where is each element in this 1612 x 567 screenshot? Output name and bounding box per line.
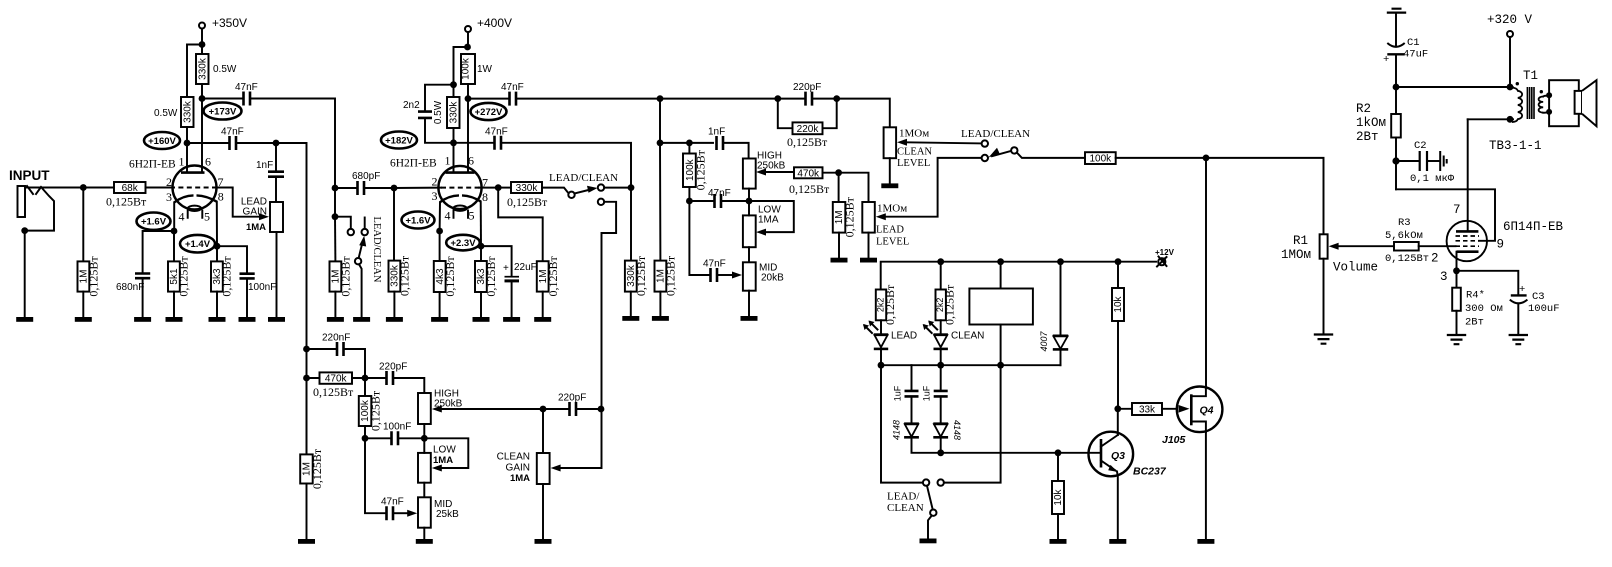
resistor 5k1: [168, 261, 180, 291]
wire primary top: [1510, 86, 1513, 88]
transistor Q3 BC237: [1089, 432, 1134, 477]
ground: [920, 539, 937, 544]
svg-text:100uF: 100uF: [1528, 303, 1560, 315]
svg-text:CLEAN: CLEAN: [897, 147, 932, 158]
wire 3k3 ground: [480, 292, 482, 317]
node cathode2 U2: [478, 243, 485, 250]
resistor 10k upper: [1112, 288, 1124, 321]
ground: [741, 316, 758, 321]
wire 1M ground: [542, 292, 544, 317]
wire branch left: [454, 47, 468, 85]
wire cathode2 down: [216, 246, 218, 261]
wire 330k ground: [393, 292, 395, 317]
switch0 lever: [359, 241, 363, 258]
wire pin3 to C3: [1457, 271, 1519, 294]
svg-text:+272V: +272V: [475, 107, 503, 118]
wire 1M ground: [659, 292, 661, 316]
svg-text:470k: 470k: [325, 374, 348, 385]
capacitor 1nF lead: [717, 136, 724, 150]
switch3 left contact: [923, 479, 929, 485]
svg-text:R1: R1: [1293, 234, 1308, 248]
node cathode1: [171, 228, 178, 235]
svg-text:330k: 330k: [516, 183, 539, 194]
capacitor 1nF: [268, 172, 284, 177]
oval +182V: [381, 132, 417, 149]
wire Q3 emitter down: [1116, 472, 1119, 540]
resistor 330k coupling: [511, 182, 542, 193]
wire LOW stubs: [423, 438, 425, 497]
node plate B1: [199, 95, 206, 102]
wire pin3 to R4: [1456, 271, 1458, 288]
svg-text:+1.4V: +1.4V: [185, 239, 211, 250]
ground: [473, 317, 490, 322]
oval +1.6V (2): [402, 212, 435, 229]
wire 10k ground: [1057, 514, 1059, 539]
svg-text:100k: 100k: [460, 57, 471, 80]
wire to 330k: [498, 187, 511, 189]
wire upper contact to node: [604, 187, 631, 189]
svg-text:1uF: 1uF: [922, 385, 932, 401]
node HIGH/LOW junction: [421, 435, 428, 442]
svg-text:330k: 330k: [197, 57, 208, 80]
svg-text:CLEAN: CLEAN: [497, 452, 530, 463]
wire node to 330k x631: [630, 188, 632, 261]
LED CLEAN arrows: [924, 322, 937, 333]
wire 220nF: [307, 348, 336, 350]
svg-text:0,125Вт: 0,125Вт: [339, 256, 353, 297]
svg-text:220nF: 220nF: [322, 333, 350, 344]
ground: [534, 317, 551, 322]
ground: [1109, 539, 1126, 544]
wire node to LEAD LEVEL: [839, 173, 869, 202]
tube U1 plate bar: [181, 171, 205, 174]
T1 secondary coil: [1539, 97, 1544, 113]
tube U1 circle: [173, 166, 217, 210]
capacitor 1uF lead: [905, 391, 919, 397]
svg-text:7: 7: [1453, 203, 1461, 217]
tube V3 grids: [1456, 235, 1480, 237]
wire 1uF chain clean: [940, 365, 942, 390]
svg-text:0,125Вт: 0,125Вт: [787, 135, 828, 149]
chassis ground sideways: [1440, 151, 1447, 171]
capacitor 2n2: [418, 112, 432, 118]
wire 1M ground: [334, 292, 336, 317]
wire to 220pF: [365, 377, 385, 379]
svg-text:47nF: 47nF: [703, 259, 726, 270]
svg-text:+320 V: +320 V: [1487, 13, 1533, 27]
svg-text:+400V: +400V: [477, 16, 512, 30]
arrow LEAD LEVEL wiper: [876, 213, 886, 220]
resistor 3k3 (2): [475, 261, 487, 292]
wire cathode2 to 100nF: [217, 246, 247, 272]
svg-text:ТВ3-1-1: ТВ3-1-1: [1489, 139, 1542, 153]
wire cathode1 down: [173, 231, 175, 261]
svg-text:C3: C3: [1532, 291, 1545, 303]
svg-text:220pF: 220pF: [793, 82, 821, 93]
svg-text:LEVEL: LEVEL: [876, 237, 909, 248]
rail node 10k: [1115, 258, 1122, 265]
svg-text:+12V: +12V: [1155, 248, 1175, 257]
switch2 upper contact: [982, 140, 988, 146]
svg-text:Q4: Q4: [1200, 405, 1214, 417]
node collector/33k: [1114, 405, 1121, 412]
node R2/C2: [1392, 157, 1399, 164]
tube U2 plate bar: [446, 171, 475, 174]
wire 33k to Q4 gate: [1162, 408, 1177, 410]
capacitor 220pF top: [806, 92, 813, 106]
wire to plate node: [201, 84, 203, 99]
svg-text:0,125Вт: 0,125Вт: [443, 256, 457, 297]
wire R2 to node: [1395, 138, 1397, 162]
svg-text:250kB: 250kB: [757, 161, 786, 172]
svg-text:0,125Вт: 0,125Вт: [313, 385, 354, 399]
wire y143 to 1nF: [660, 142, 713, 144]
svg-text:1MA: 1MA: [433, 455, 453, 466]
wire LED common: [881, 364, 1061, 366]
rail node 4007: [1057, 258, 1064, 265]
svg-text:4007: 4007: [1039, 330, 1049, 351]
wire 220k loop: [778, 99, 837, 129]
ground: [298, 539, 315, 544]
resistor 220k: [793, 122, 823, 134]
svg-text:0,125Вт: 0,125Вт: [310, 448, 324, 489]
wire 2k2 to LED: [940, 320, 942, 334]
svg-text:CLEAN: CLEAN: [887, 502, 924, 514]
resistor 330k (x394): [389, 261, 401, 292]
wire lower contact down: [602, 202, 617, 468]
ground: [652, 316, 669, 321]
wire 2n2 top: [425, 85, 454, 111]
node pin3: [1453, 267, 1460, 274]
svg-text:6: 6: [468, 154, 474, 168]
tube U2 grid dashes: [441, 187, 480, 189]
wire wiper to 220pF gain: [442, 408, 543, 410]
potentiometer CLEAN GAIN 1MA: [537, 453, 550, 484]
svg-text:+2.3V: +2.3V: [450, 238, 476, 249]
resistor R3 5,6kOm: [1394, 242, 1419, 251]
svg-text:100k: 100k: [1089, 154, 1112, 165]
svg-text:0,125Вт: 0,125Вт: [369, 390, 383, 431]
svg-text:1МОм: 1МОм: [877, 203, 907, 215]
svg-text:2: 2: [432, 175, 438, 189]
input jack body: [18, 186, 26, 217]
potentiometer MID 25kB clean: [418, 497, 431, 527]
wire CLEAN LEVEL ground: [889, 158, 891, 183]
wire long y98: [518, 98, 805, 100]
speaker terminals: [1546, 92, 1552, 98]
svg-text:20kB: 20kB: [761, 273, 784, 284]
wire wiper to R3: [1339, 245, 1394, 247]
svg-text:1W: 1W: [477, 64, 493, 75]
wire y143: [187, 142, 228, 144]
resistor 1M clean: [300, 454, 313, 483]
svg-text:47nF: 47nF: [501, 82, 524, 93]
svg-text:5,6kОм: 5,6kОм: [1385, 230, 1423, 242]
switch3 right contact: [938, 479, 944, 485]
wire cathode1 to 680nF: [143, 231, 174, 272]
svg-text:8: 8: [218, 190, 224, 204]
wire 330k ground: [630, 292, 632, 316]
ground: [831, 258, 848, 263]
node 320V: [1507, 84, 1514, 91]
wire 4148 to node: [940, 439, 942, 453]
wire screen pin9: [1396, 189, 1495, 241]
wire LOW loop: [749, 201, 794, 232]
resistor R2 1kOm 2Вт: [1391, 114, 1401, 138]
wire y98 coupling: [468, 98, 508, 100]
tube V3 plate bar: [1456, 230, 1478, 233]
wire to 100nF: [365, 437, 390, 439]
wire 100k clean: [364, 378, 366, 396]
svg-text:6Н2П-ЕВ: 6Н2П-ЕВ: [390, 158, 437, 170]
svg-text:2: 2: [1431, 252, 1439, 266]
tube U2 circle: [438, 166, 481, 209]
capacitor 1uF clean: [934, 391, 948, 397]
LED CLEAN: [934, 333, 948, 336]
terminal +350V: [199, 23, 205, 29]
tube U1 cathode arcs: [174, 195, 217, 202]
svg-text:4: 4: [179, 210, 185, 224]
wire secondary leads: [1543, 96, 1549, 113]
wire 22uF ground: [511, 282, 513, 317]
rail node 2k2 clean: [937, 258, 944, 265]
wire to C2: [1396, 160, 1418, 162]
wire 1M hang jog: [498, 188, 543, 262]
svg-text:220pF: 220pF: [558, 393, 586, 404]
svg-text:22uF: 22uF: [514, 262, 537, 273]
svg-text:680pF: 680pF: [352, 171, 380, 182]
svg-text:6П14П-ЕВ: 6П14П-ЕВ: [1503, 220, 1564, 234]
wire 680pF left: [335, 187, 356, 189]
switch3 pivot: [930, 510, 936, 516]
wire to 33k: [1118, 408, 1132, 410]
svg-text:0,125Вт: 0,125Вт: [634, 255, 648, 296]
svg-text:330k: 330k: [448, 101, 459, 124]
svg-text:Volume: Volume: [1333, 261, 1378, 275]
potentiometer LEAD LEVEL 1MOm: [862, 202, 875, 233]
wire to tube2 grid: [394, 187, 441, 189]
node 10k base: [1055, 449, 1062, 456]
resistor 330k (x631): [625, 261, 637, 292]
wire cathode2 U2: [480, 202, 482, 247]
switch0 contact B: [362, 229, 368, 235]
wire C1 to node: [1395, 56, 1397, 88]
T1 primary coil: [1512, 88, 1522, 122]
svg-text:47uF: 47uF: [1403, 49, 1428, 61]
switch0 pivot: [355, 258, 361, 264]
wire 470k leads: [307, 377, 366, 379]
node C1: [1393, 84, 1400, 91]
svg-text:CLEAN: CLEAN: [951, 331, 984, 342]
node cathode2: [214, 243, 221, 250]
switch1 upper contact: [598, 184, 604, 190]
wire relay top: [1000, 262, 1002, 289]
node pin7 U2: [495, 184, 502, 191]
resistor 470k clean: [320, 372, 353, 383]
speaker driver: [1575, 91, 1582, 114]
svg-text:1uF: 1uF: [892, 385, 902, 401]
wire to HIGH bottom: [723, 200, 750, 202]
wire 4007 top: [1060, 262, 1062, 335]
node x660 y143: [657, 140, 664, 147]
svg-text:9: 9: [1497, 238, 1505, 252]
svg-text:T1: T1: [1523, 69, 1538, 83]
node 100k bottom: [686, 198, 693, 205]
wire to 22uF: [481, 246, 512, 276]
wire base line: [941, 452, 1099, 454]
tube U1 grid dashes: [170, 187, 220, 189]
svg-text:LEAD: LEAD: [891, 331, 917, 342]
svg-text:47nF: 47nF: [485, 127, 508, 138]
resistor R4* 300 Om: [1452, 288, 1461, 311]
ground: [503, 317, 520, 322]
svg-text:0.5W: 0.5W: [433, 100, 444, 124]
ground: [239, 317, 256, 322]
resistor 1M (x660): [655, 261, 667, 292]
svg-text:BC237: BC237: [1133, 466, 1167, 478]
svg-text:1: 1: [445, 154, 451, 168]
node grid A2: [391, 185, 398, 192]
wire cap to arrow: [719, 274, 733, 276]
wire Q4 source down: [1205, 432, 1207, 539]
svg-text:GAIN: GAIN: [506, 463, 530, 474]
resistor 100k 1W: [461, 54, 475, 84]
ground: [327, 317, 344, 322]
capacitor 47nF (1a): [244, 92, 251, 106]
wire 1uF chain lead: [911, 365, 913, 390]
svg-text:10k: 10k: [1053, 488, 1064, 505]
capacitor 47nF lead mid: [715, 194, 722, 208]
wire x335 down: [334, 188, 336, 217]
resistor 10k lower: [1052, 481, 1064, 514]
svg-text:100nF: 100nF: [383, 422, 411, 433]
potentiometer HIGH 250kB clean: [418, 393, 431, 424]
resistor 1M lead: [833, 202, 846, 233]
svg-text:25kB: 25kB: [436, 509, 459, 520]
diode 4148 lead: [904, 422, 919, 425]
svg-text:4: 4: [445, 209, 451, 223]
terminal +400V: [465, 26, 471, 32]
wire 680pF right: [366, 187, 395, 189]
ground: [386, 317, 403, 322]
wire wiper to 470k: [766, 171, 794, 173]
svg-text:R3: R3: [1398, 217, 1411, 229]
wire x335 to 1M: [334, 217, 336, 262]
diode 4007: [1053, 334, 1068, 337]
resistor 4k3: [434, 261, 446, 292]
svg-text:68k: 68k: [122, 183, 139, 194]
wire 100k to plate node: [467, 84, 469, 99]
svg-text:0.5W: 0.5W: [154, 108, 178, 119]
svg-text:J105: J105: [1162, 434, 1186, 446]
svg-text:33k: 33k: [1139, 405, 1156, 416]
potentiometer HIGH 250kB lead: [743, 159, 756, 189]
oval +1.4V: [180, 235, 215, 253]
node Q4 drain tap: [1203, 155, 1210, 162]
node switch drop: [598, 406, 605, 413]
svg-text:5: 5: [204, 210, 210, 224]
svg-text:47nF: 47nF: [235, 82, 258, 93]
svg-text:0,125Вт: 0,125Вт: [220, 256, 234, 297]
wire contactB stub: [364, 218, 366, 229]
wire 10k to collector node: [1117, 321, 1119, 409]
svg-text:330k: 330k: [182, 100, 193, 123]
wire 47nF clean: [365, 438, 385, 513]
wire wiper from switch line: [561, 467, 601, 469]
wire relay bottom: [1000, 325, 1002, 366]
wire to CLEAN LEVEL: [837, 99, 890, 128]
wire 680nF ground: [142, 280, 144, 318]
svg-text:680nF: 680nF: [116, 282, 144, 293]
node lead branch: [878, 362, 885, 369]
wire switch0 branch: [335, 217, 351, 229]
svg-text:0,125Вт: 0,125Вт: [398, 255, 412, 296]
svg-text:8: 8: [482, 190, 488, 204]
capacitor C2 0,1uF: [1420, 151, 1427, 171]
resistor 68k: [114, 182, 146, 193]
ground: [353, 317, 370, 322]
wire 1nF to HIGH: [725, 143, 749, 159]
ground top (inverted): [1387, 9, 1406, 13]
wire to 1nF node: [238, 142, 277, 144]
node 400V: [464, 44, 471, 51]
svg-text:2Вт: 2Вт: [1356, 130, 1379, 144]
ground: [416, 539, 433, 544]
svg-text:1МОм: 1МОм: [1281, 248, 1311, 262]
wire pivot to 100k: [1017, 153, 1085, 158]
wire C3 ground: [1517, 304, 1519, 335]
wire R4 ground: [1456, 311, 1458, 335]
potentiometer MID 20kB lead: [743, 262, 756, 290]
wire LED to node: [880, 350, 882, 365]
capacitor 220pF gain: [570, 402, 577, 416]
svg-text:0,125Вт: 0,125Вт: [1385, 253, 1429, 265]
wire 2k2 clean top: [940, 262, 942, 290]
wire node to R2: [1395, 87, 1397, 114]
wire 1M ground: [838, 233, 840, 258]
wire 10k upper: [1117, 262, 1119, 288]
node 220pF right: [833, 95, 840, 102]
node 220nF left: [303, 346, 310, 353]
arrow MID wiper: [732, 272, 742, 279]
svg-text:0,1 мкФ: 0,1 мкФ: [1410, 173, 1455, 185]
svg-text:1МА: 1МА: [758, 215, 779, 226]
svg-text:0,125Вт: 0,125Вт: [87, 256, 101, 297]
wire to switch1: [503, 143, 632, 188]
wire pin7 U2 out: [479, 187, 498, 189]
svg-text:GAIN: GAIN: [243, 207, 267, 218]
svg-text:INPUT: INPUT: [9, 168, 50, 183]
svg-text:2Вт: 2Вт: [1465, 317, 1484, 329]
svg-text:+173V: +173V: [209, 107, 237, 118]
wire cathode1 U2: [439, 202, 441, 231]
oval +1.6V: [137, 213, 171, 230]
tube U1 cathode 2 ellipse: [188, 206, 201, 211]
wire 47nF mid-wiper: [689, 201, 709, 275]
node switch1: [628, 184, 635, 191]
arrow R1 wiper: [1329, 243, 1339, 250]
wire 220pF leads: [543, 408, 601, 410]
svg-text:1MA: 1MA: [510, 473, 530, 484]
ground: [881, 183, 898, 188]
node switch0: [332, 213, 339, 220]
svg-text:+182V: +182V: [385, 136, 413, 147]
svg-text:+1.6V: +1.6V: [405, 216, 431, 227]
wire 470k right: [823, 172, 839, 174]
wire 3k3 ground: [216, 292, 218, 317]
wire 47nF to x335: [252, 99, 336, 189]
wire tube2 plate wires: [454, 99, 469, 171]
